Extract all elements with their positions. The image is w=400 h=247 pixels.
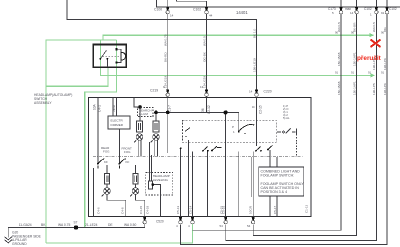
wire lamp L1 leads <box>137 140 139 156</box>
svg-text:WA 0.5: WA 0.5 <box>202 36 206 46</box>
search illumination dashed box <box>138 108 154 117</box>
svg-text:54: 54 <box>247 224 251 228</box>
svg-text:91: 91 <box>381 71 385 75</box>
svg-text:WA 0.75: WA 0.75 <box>164 34 168 46</box>
node S7 <box>74 225 78 229</box>
svg-text:90: 90 <box>335 31 339 35</box>
svg-text:C2-15: C2-15 <box>259 105 263 114</box>
mechanical link dash-dot <box>93 155 304 157</box>
svg-text:C4-18: C4-18 <box>146 205 150 214</box>
svg-text:POSITION 3 & 4: POSITION 3 & 4 <box>261 190 288 194</box>
wire drop to arm <box>238 112 240 130</box>
wire R1 feed from pin <box>134 98 140 108</box>
connector C220 on long wire <box>249 90 272 97</box>
switch contact K2 <box>119 158 130 168</box>
lamp L2 <box>151 134 160 143</box>
svg-text:ILLUM: ILLUM <box>139 112 148 116</box>
svg-text:C4-6: C4-6 <box>97 207 101 214</box>
wire R2 feed <box>155 112 157 121</box>
rotary arm <box>232 124 255 135</box>
svg-text:BK 1.0: BK 1.0 <box>252 28 256 38</box>
svg-text:P: P <box>232 125 234 129</box>
svg-text:150-15A5: 150-15A5 <box>337 81 341 95</box>
svg-text:196-LP6: 196-LP6 <box>383 83 387 95</box>
connector C219 on C102 wire <box>200 85 208 96</box>
contact c2 <box>202 150 204 152</box>
wire ground run <box>8 224 145 238</box>
wire pin9 internal <box>167 98 169 154</box>
resistor R1 <box>137 121 143 132</box>
svg-text:C4-15: C4-15 <box>139 205 143 214</box>
node pot <box>152 183 155 186</box>
svg-text:ELECTR: ELECTR <box>111 119 124 123</box>
svg-text:10C/8: 10C/8 <box>249 206 253 214</box>
svg-text:156-LG19: 156-LG19 <box>252 58 256 72</box>
relay linkage dashed <box>103 55 121 57</box>
connector bottom A <box>176 217 182 228</box>
node dot B <box>154 111 158 115</box>
contact c5 <box>267 149 269 151</box>
svg-text:BK-RD: BK-RD <box>164 52 168 62</box>
svg-text:přerušit: přerušit <box>357 55 382 62</box>
wire lamp L3 to pin <box>107 194 126 216</box>
connector S7-branch <box>143 217 146 224</box>
wire pot feeds <box>149 142 151 181</box>
connector C219 on C100 wire <box>150 85 169 96</box>
wire through relay to H2 <box>101 40 375 75</box>
svg-text:S7: S7 <box>74 221 78 225</box>
svg-text:C5-17: C5-17 <box>273 205 277 214</box>
wire drop C100 to switch <box>167 11 169 98</box>
connector C1035 <box>328 7 343 15</box>
potentiometer P1 <box>148 181 152 189</box>
svg-text:C102: C102 <box>389 7 397 11</box>
wire contact drops to bottom pins <box>180 149 182 216</box>
svg-text:14: 14 <box>350 11 354 15</box>
connector bottom D <box>247 217 255 228</box>
svg-text:LEVELING: LEVELING <box>153 178 169 182</box>
pin labels top edge <box>93 103 263 114</box>
svg-text:DIMMER: DIMMER <box>111 123 124 127</box>
note box combined light <box>259 167 304 196</box>
tiny crossing numbers near green line <box>335 31 385 75</box>
connector bottom B <box>188 217 194 228</box>
wire lamp L2 leads <box>154 140 156 156</box>
svg-text:C1-13: C1-13 <box>305 204 309 213</box>
lamp L3 <box>102 165 111 197</box>
svg-text:44: 44 <box>209 14 213 18</box>
relay contact arm <box>100 50 106 59</box>
svg-text:8: 8 <box>252 106 256 108</box>
svg-text:150-1AP1: 150-1AP1 <box>352 52 356 66</box>
svg-text:13: 13 <box>200 85 204 89</box>
connector C1033 <box>381 7 397 15</box>
headlamp leveling dashed box <box>146 172 173 195</box>
wire pin8 down <box>256 98 258 147</box>
switch contact K1 <box>97 158 108 168</box>
relay contact pivots <box>99 58 101 60</box>
main box <box>89 98 311 217</box>
contact row lower <box>180 145 273 152</box>
svg-text:150-1AP1: 150-1AP1 <box>352 81 356 95</box>
green arrowhead 2 <box>371 73 375 77</box>
svg-text:150-15A5: 150-15A5 <box>337 52 341 66</box>
svg-text:WA 0.75: WA 0.75 <box>58 223 71 227</box>
contact c3 <box>211 150 213 152</box>
svg-text:196-LP6: 196-LP6 <box>383 58 387 70</box>
ground symbol G20 <box>5 237 12 243</box>
highlight box top edge <box>46 40 116 243</box>
wire long route from top left <box>67 0 257 90</box>
svg-text:FOGLAMP SWITCH:: FOGLAMP SWITCH: <box>261 174 295 178</box>
resistor R4 <box>133 174 138 185</box>
wire right 4 <box>181 0 388 245</box>
pin labels bottom edge <box>97 204 309 214</box>
wire feed C100 <box>167 0 169 7</box>
svg-text:14: 14 <box>249 90 253 94</box>
red X break mark <box>371 40 381 48</box>
svg-text:36: 36 <box>201 108 205 112</box>
svg-text:WA 0.5: WA 0.5 <box>372 22 376 32</box>
svg-text:C4-8: C4-8 <box>121 207 125 214</box>
svg-text:KF: KF <box>126 160 130 164</box>
node dot C <box>166 111 170 115</box>
svg-text:91: 91 <box>368 71 372 75</box>
svg-text:196-LP5: 196-LP5 <box>372 83 376 95</box>
svg-text:C102: C102 <box>364 7 372 11</box>
svg-text:C100: C100 <box>154 8 162 12</box>
svg-text:21-LE24: 21-LE24 <box>85 223 98 227</box>
relay box <box>93 45 126 68</box>
connector C100 <box>154 7 174 18</box>
connector C1049 <box>345 7 358 15</box>
relay coil lead bottom <box>116 60 121 63</box>
svg-text:10A: 10A <box>93 103 97 110</box>
electronic dimmer box <box>108 116 130 129</box>
contact c1 <box>180 148 182 150</box>
svg-text:C520: C520 <box>156 220 164 224</box>
wire 14401 power bus <box>157 0 400 7</box>
connector C1032 <box>364 7 378 17</box>
wire drop C102 to switch <box>206 11 208 98</box>
node dot A <box>138 105 142 109</box>
svg-text:C219: C219 <box>150 89 158 93</box>
green arrowhead 1 <box>370 33 374 37</box>
wire pot output <box>153 185 161 217</box>
svg-text:C220: C220 <box>264 90 272 94</box>
svg-text:WA 0.50: WA 0.50 <box>124 223 137 227</box>
svg-text:C5-16: C5-16 <box>221 205 225 214</box>
label headlamp switch assembly <box>34 93 72 105</box>
relay output branch <box>46 67 108 86</box>
relay coil lead top <box>116 49 121 52</box>
resistor R3 <box>104 174 109 185</box>
svg-text:C5-13: C5-13 <box>176 205 180 214</box>
svg-text:C5-14: C5-14 <box>189 205 193 214</box>
label ground wire <box>19 223 137 227</box>
wire right 1 <box>193 0 342 230</box>
wire pin left <box>92 168 94 216</box>
svg-text:91: 91 <box>351 71 355 75</box>
lamp L1 <box>134 134 143 143</box>
wire lamp L4 to pin <box>136 194 145 216</box>
svg-text:90: 90 <box>381 31 385 35</box>
svg-text:90: 90 <box>351 31 355 35</box>
svg-text:14401: 14401 <box>236 10 248 15</box>
connector bottom C <box>220 217 228 228</box>
svg-text:14: 14 <box>170 14 174 18</box>
svg-text:ASSEMBLY: ASSEMBLY <box>34 101 52 105</box>
svg-text:KF: KF <box>104 160 108 164</box>
wire right 3 <box>226 0 377 241</box>
svg-text:54: 54 <box>220 224 224 228</box>
wire node dot down <box>225 112 227 216</box>
rotary left contacts <box>185 127 191 137</box>
wire stub upper box <box>176 0 206 7</box>
svg-text:OG-BK: OG-BK <box>202 51 206 62</box>
contact c4 <box>255 150 257 152</box>
label G20 ground <box>12 231 42 246</box>
wire dimmer feeds <box>97 98 99 163</box>
connector C102 <box>193 7 213 18</box>
svg-text:91: 91 <box>335 71 339 75</box>
wire C102 internal <box>206 98 208 113</box>
wire into relay (node) <box>85 40 117 227</box>
relay pin wire <box>106 59 108 67</box>
wire right 2 <box>253 0 356 236</box>
svg-text:DE: DE <box>108 223 113 227</box>
resistor R2 <box>153 121 159 132</box>
node S dot <box>224 110 228 114</box>
svg-text:11-GA24: 11-GA24 <box>19 223 32 227</box>
relay coil element <box>121 53 126 60</box>
svg-text:FOG: FOG <box>103 149 110 153</box>
svg-text:C102: C102 <box>193 8 201 12</box>
lamp L4 <box>130 165 139 197</box>
wire interior bus y112.4 <box>156 111 239 113</box>
svg-text:GROUND: GROUND <box>12 242 27 246</box>
position legend <box>283 104 290 120</box>
rotary switch dashed box <box>183 120 277 142</box>
svg-text:FOG: FOG <box>124 150 131 154</box>
aux contact right <box>277 129 297 157</box>
bottom highlight run <box>46 224 193 244</box>
svg-text:5) AL: 5) AL <box>283 116 290 120</box>
highlighted wire H1 across top <box>103 35 374 40</box>
svg-text:91: 91 <box>381 11 385 15</box>
